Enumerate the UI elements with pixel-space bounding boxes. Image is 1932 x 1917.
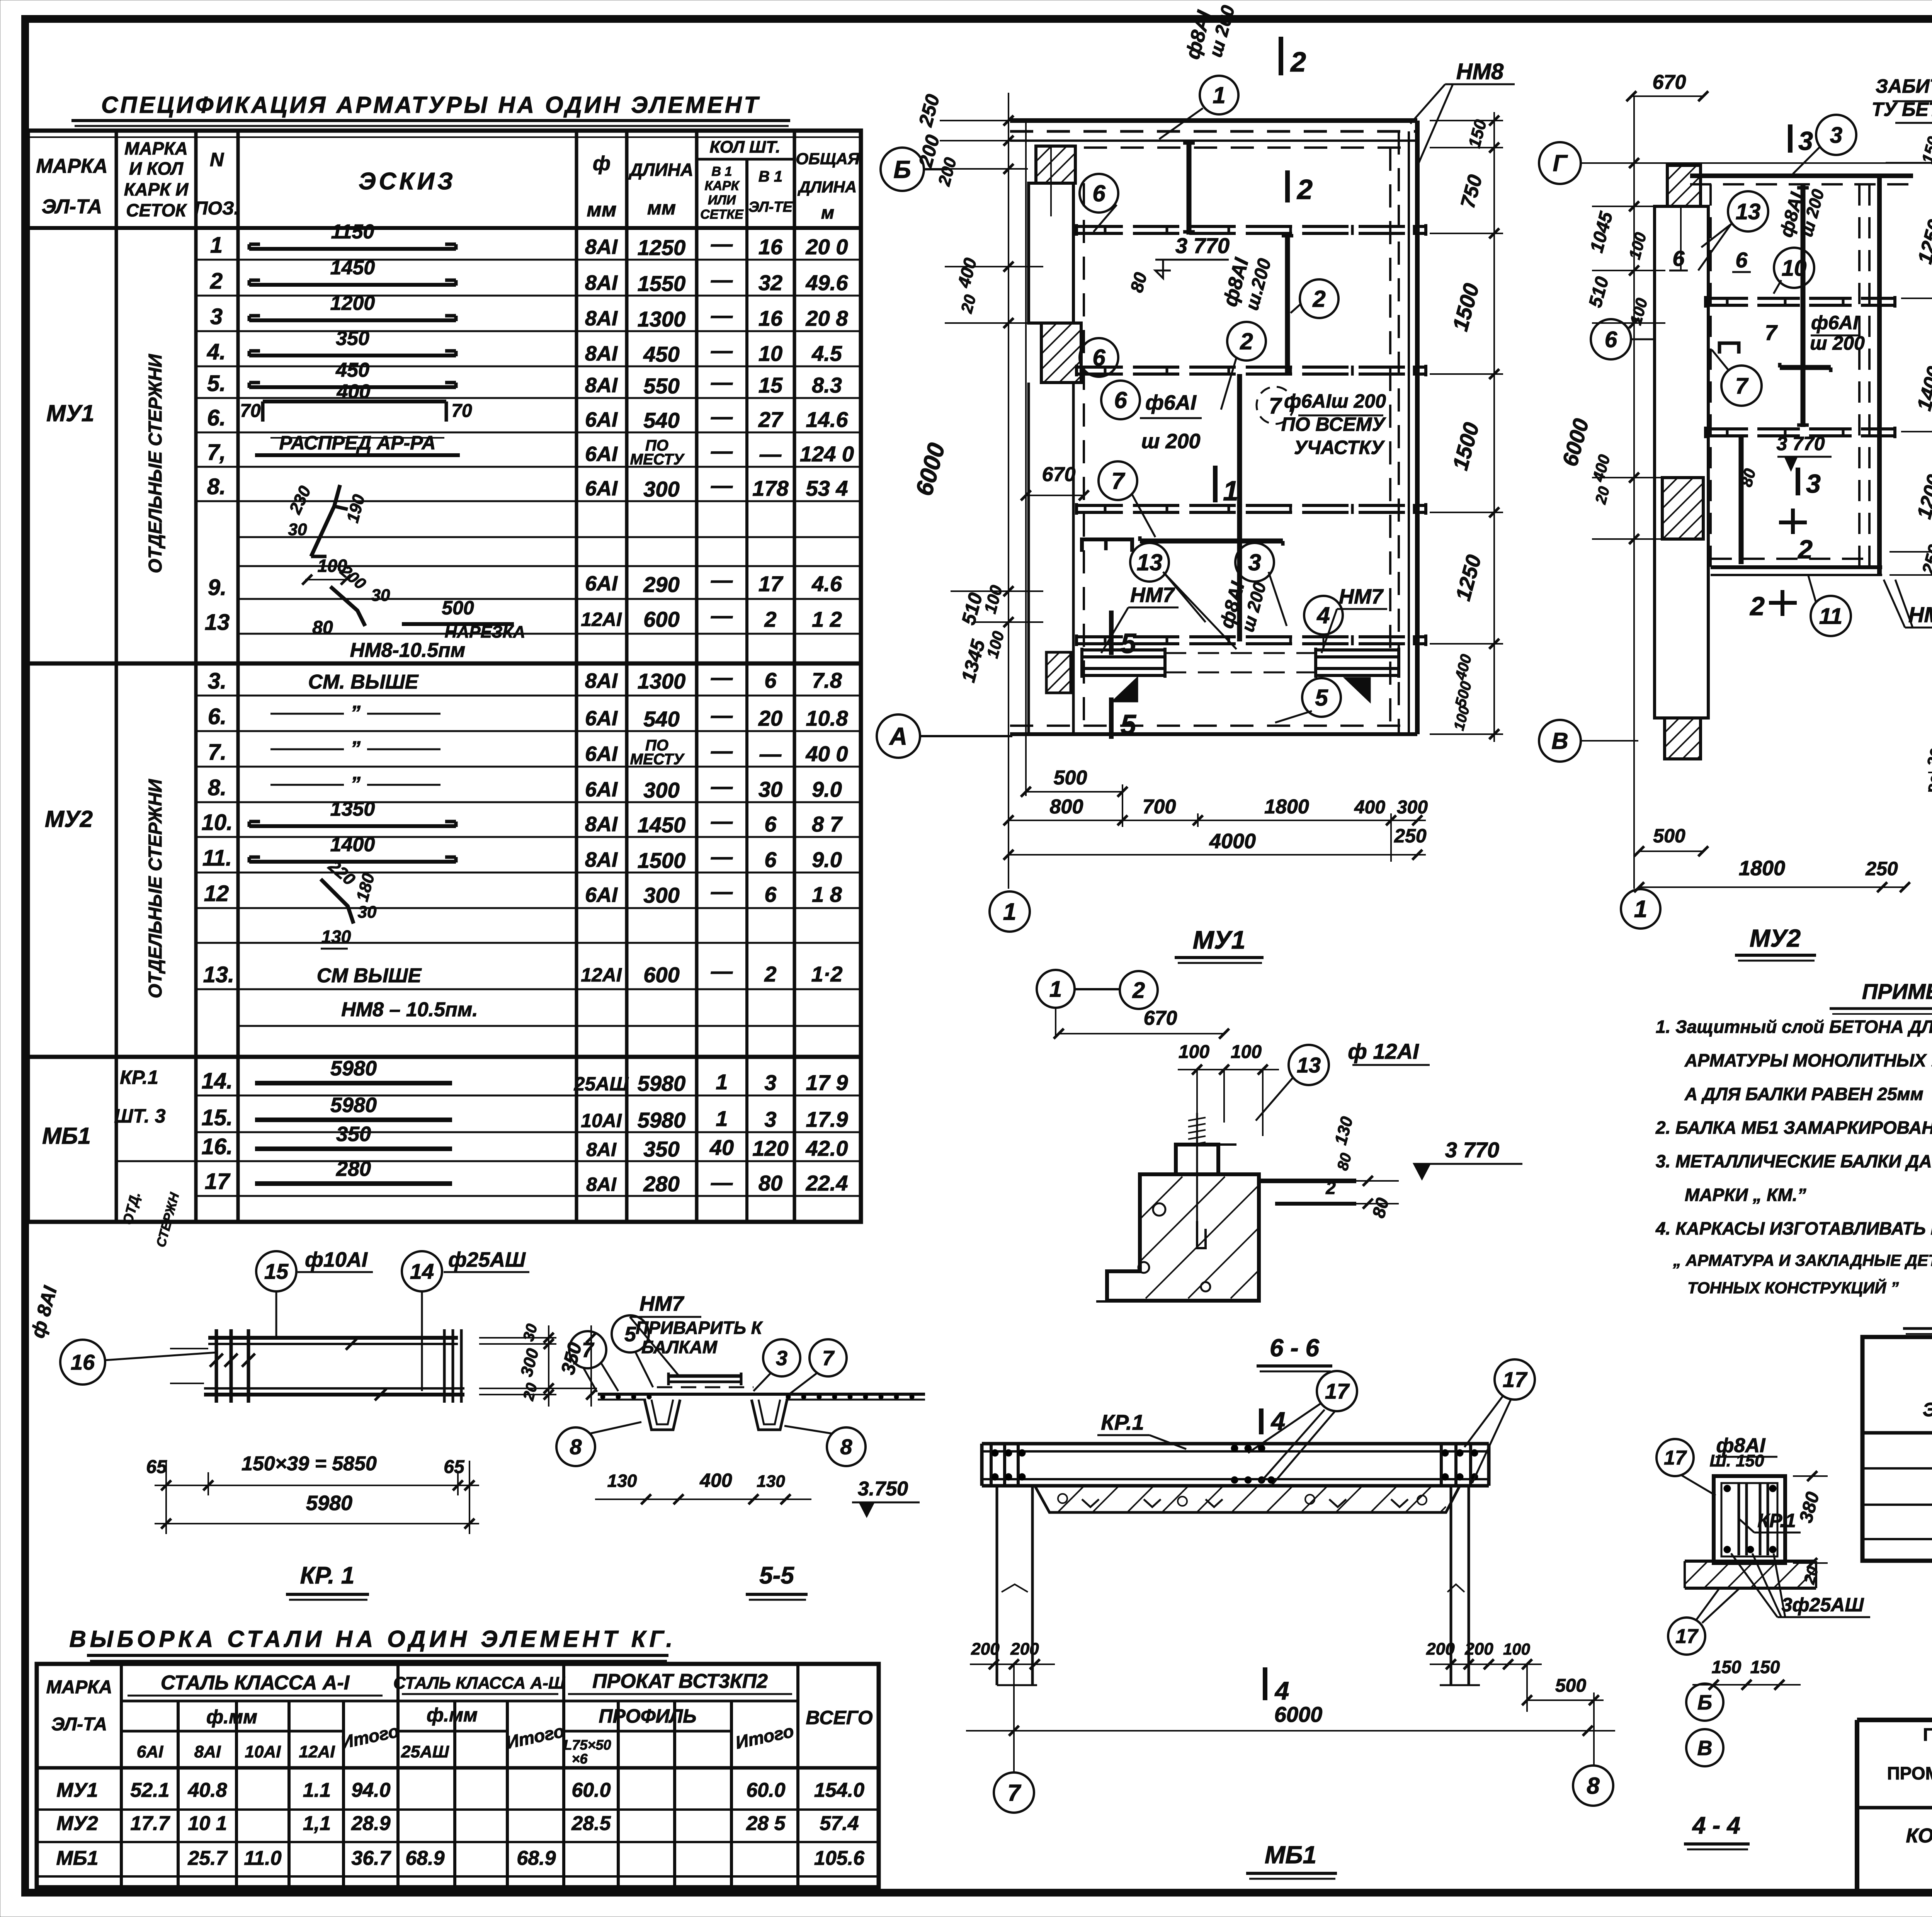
svg-text:20: 20 <box>758 706 782 730</box>
svg-text:„ АРМАТУРА И ЗАКЛАДНЫЕ ДЕТАЛИ: „ АРМАТУРА И ЗАКЛАДНЫЕ ДЕТАЛИ СВАРНЫЕ ДЛ… <box>1673 1251 1932 1269</box>
svg-text:600: 600 <box>643 963 679 987</box>
svg-text:ф10АI: ф10АI <box>305 1248 368 1271</box>
svg-text:3 770: 3 770 <box>1175 233 1230 258</box>
svg-text:32: 32 <box>759 270 782 295</box>
svg-text:68.9: 68.9 <box>517 1847 556 1869</box>
svg-text:7: 7 <box>1735 373 1749 398</box>
svg-text:450: 450 <box>335 359 369 381</box>
plan МУ2: ЗАБИТЬ ПО МЕСТУ callout <box>1872 75 1932 170</box>
svg-text:17 9: 17 9 <box>806 1070 848 1095</box>
svg-text:25АШ: 25АШ <box>574 1073 629 1095</box>
svg-text:7.: 7. <box>208 740 226 765</box>
plan МУ2: section cut marks <box>1749 124 1821 621</box>
svg-text:65: 65 <box>444 1457 465 1477</box>
svg-text:НМ8 – 10.5пм.: НМ8 – 10.5пм. <box>341 998 478 1021</box>
svg-text:3.750: 3.750 <box>858 1478 908 1500</box>
svg-text:КОЛ ШТ.: КОЛ ШТ. <box>709 138 780 156</box>
svg-text:ДЛИНА: ДЛИНА <box>628 160 693 180</box>
svg-text:17: 17 <box>205 1169 231 1194</box>
svg-text:7: 7 <box>582 1339 595 1362</box>
svg-text:НМ7: НМ7 <box>1130 583 1175 607</box>
svg-text:17: 17 <box>1503 1368 1528 1392</box>
svg-text:250: 250 <box>1394 825 1427 847</box>
МБ1 elevation: center rebar dots <box>1231 1445 1275 1483</box>
svg-text:—: — <box>711 844 733 869</box>
svg-text:1250: 1250 <box>638 235 686 260</box>
svg-text:350: 350 <box>336 327 369 350</box>
svg-text:10.: 10. <box>202 810 233 835</box>
svg-text:130: 130 <box>757 1472 785 1491</box>
svg-text:500: 500 <box>1555 1675 1586 1696</box>
label 4-4 <box>1684 1812 1750 1849</box>
svg-text:—: — <box>711 603 733 628</box>
svg-text:8АI: 8АI <box>585 307 618 330</box>
plan МУ1: beams <box>1077 224 1426 646</box>
svg-text:280: 280 <box>336 1157 371 1180</box>
svg-text:МУ2: МУ2 <box>45 806 93 832</box>
svg-text:6.: 6. <box>208 704 226 729</box>
svg-text:15.: 15. <box>202 1105 233 1130</box>
svg-text:мм: мм <box>587 199 617 221</box>
svg-text:ф6АI: ф6АI <box>1811 312 1859 333</box>
section 4-4: axis circles Б В <box>1686 1684 1747 1766</box>
svg-text:ПРОМСТРОЙНИИПРОЕКТ: ПРОМСТРОЙНИИПРОЕКТ <box>1887 1763 1932 1783</box>
выборка table texts <box>46 1670 873 1869</box>
svg-text:5980: 5980 <box>306 1492 352 1515</box>
svg-text:5980: 5980 <box>330 1094 377 1117</box>
svg-text:8АI: 8АI <box>585 271 618 294</box>
svg-text:16: 16 <box>759 235 783 259</box>
svg-text:1: 1 <box>1003 899 1016 925</box>
svg-text:3: 3 <box>1830 122 1842 148</box>
svg-text:7: 7 <box>1111 468 1125 494</box>
svg-text:ВЫБОРКА СТАЛИ НА ОДИН ЭЛЕМ: ВЫБОРКА СТАЛИ НА ОДИН ЭЛЕМЕНТ КГ. <box>70 1626 677 1652</box>
svg-text:3.: 3. <box>208 668 226 694</box>
КР.1 frame: right dims <box>479 1322 597 1407</box>
svg-text:11.: 11. <box>202 845 232 871</box>
svg-text:6АI: 6АI <box>585 707 618 730</box>
svg-text:6АI: 6АI <box>585 408 618 431</box>
svg-text:6: 6 <box>1114 387 1127 413</box>
svg-text:600: 600 <box>643 607 679 631</box>
svg-text:А: А <box>889 722 907 750</box>
svg-text:И КОЛ: И КОЛ <box>129 158 184 179</box>
svg-text:68.9: 68.9 <box>405 1847 444 1869</box>
МБ1 elevation: bottom axis circles 7 8 <box>994 1766 1613 1813</box>
svg-text:60.0: 60.0 <box>571 1779 611 1801</box>
МБ1 elevation: hatched web strip <box>1035 1486 1460 1512</box>
label МБ1 <box>1246 1841 1337 1879</box>
svg-text:5980: 5980 <box>638 1108 686 1132</box>
svg-text:28.5: 28.5 <box>571 1812 611 1835</box>
svg-text:3 770: 3 770 <box>1445 1138 1499 1162</box>
svg-text:7,: 7, <box>207 440 226 465</box>
svg-text:КОМПРЕССОРНАЯ: КОМПРЕССОРНАЯ <box>1906 1825 1932 1847</box>
svg-text:В: В <box>1697 1737 1713 1760</box>
svg-text:НМ8-10.5пм: НМ8-10.5пм <box>350 639 466 662</box>
detail 6-6: elevation 3.770 <box>1414 1138 1522 1179</box>
svg-text:7: 7 <box>822 1347 835 1370</box>
svg-text:—: — <box>711 959 733 983</box>
label КР.1 <box>286 1562 369 1600</box>
detail 6-6: header axis circles 1,2 <box>1037 970 1158 1036</box>
svg-text:”: ” <box>350 737 361 760</box>
svg-text:ДЛИНА: ДЛИНА <box>798 178 857 196</box>
plan МУ2: circled numbers <box>1591 115 1856 636</box>
svg-text:8АI: 8АI <box>586 1139 617 1160</box>
plan МУ1: axis line 1 <box>1009 93 1026 889</box>
svg-text:10: 10 <box>1782 255 1807 281</box>
svg-text:12АI: 12АI <box>299 1742 335 1761</box>
svg-text:НМ7: НМ7 <box>1339 585 1384 608</box>
svg-text:ПРОФИЛЬ: ПРОФИЛЬ <box>599 1705 697 1727</box>
svg-text:СТАЛЬ КЛАССА А-I: СТАЛЬ КЛАССА А-I <box>161 1672 350 1694</box>
svg-text:450: 450 <box>643 342 679 366</box>
svg-text:17.9: 17.9 <box>806 1107 848 1131</box>
svg-text:3 770: 3 770 <box>1776 433 1825 454</box>
svg-text:16: 16 <box>71 1350 95 1374</box>
svg-text:МУ1: МУ1 <box>56 1779 98 1801</box>
svg-text:1200: 1200 <box>330 292 375 315</box>
svg-text:—: — <box>711 665 733 689</box>
svg-text:МАРКА: МАРКА <box>46 1677 112 1698</box>
svg-text:ЭЛ-ТЕ: ЭЛ-ТЕ <box>748 199 793 215</box>
svg-text:20 0: 20 0 <box>806 235 848 259</box>
plan МУ1: axis circle 1 bottom <box>990 891 1030 932</box>
svg-text:670: 670 <box>1653 71 1686 94</box>
svg-text:СЕТКЕ: СЕТКЕ <box>700 207 744 222</box>
svg-text:м: м <box>821 202 834 223</box>
svg-text:8АI: 8АI <box>194 1742 221 1761</box>
svg-text:30: 30 <box>371 586 390 605</box>
svg-text:ф.мм: ф.мм <box>427 1704 478 1726</box>
svg-text:1800: 1800 <box>1264 796 1309 818</box>
svg-text:—: — <box>711 568 733 592</box>
spec table header texts <box>36 138 860 223</box>
svg-text:200: 200 <box>1464 1640 1493 1658</box>
svg-text:3: 3 <box>1798 126 1813 156</box>
section 4-4: callouts <box>1656 1434 1870 1690</box>
svg-text:ЭЛЕМЕНТА: ЭЛЕМЕНТА <box>1923 1399 1932 1420</box>
svg-text:КАРК: КАРК <box>704 179 740 193</box>
svg-text:—: — <box>711 738 733 763</box>
svg-text:120: 120 <box>752 1136 788 1160</box>
svg-text:УЧАСТКУ: УЧАСТКУ <box>1294 437 1385 458</box>
axis circle А (left area) <box>877 714 1012 758</box>
plan МУ1: bottom strip joists <box>1082 648 1399 701</box>
svg-text:36.7: 36.7 <box>351 1847 391 1869</box>
plan МУ1: right edge band <box>1390 121 1417 734</box>
svg-text:8: 8 <box>1587 1773 1600 1799</box>
svg-text:1500: 1500 <box>638 848 686 873</box>
svg-text:100: 100 <box>1179 1042 1209 1062</box>
svg-text:МЕСТУ: МЕСТУ <box>630 751 685 768</box>
svg-text:8АI: 8АI <box>585 342 618 365</box>
plan МУ2: axis circle 1 bottom <box>1621 889 1660 929</box>
svg-text:5: 5 <box>1315 685 1328 711</box>
svg-text:—: — <box>711 303 733 327</box>
svg-text:ПРОКАТ ВСТ3КП2: ПРОКАТ ВСТ3КП2 <box>592 1670 768 1692</box>
svg-text:—: — <box>711 1170 733 1194</box>
plan МУ1: slab outline top band <box>1010 121 1417 148</box>
svg-text:154.0: 154.0 <box>814 1779 864 1801</box>
svg-text:ТОННЫХ КОНСТРУКЦИЙ ”: ТОННЫХ КОНСТРУКЦИЙ ” <box>1687 1278 1899 1297</box>
svg-text:2. БАЛКА МБ1 ЗАМАРКИРОВАНА НА: 2. БАЛКА МБ1 ЗАМАРКИРОВАНА НА ЛИСТЕ КЖ-1… <box>1655 1118 1932 1138</box>
svg-text:ПО ВСЕМУ: ПО ВСЕМУ <box>1281 413 1387 435</box>
svg-text:КР.1: КР.1 <box>1101 1410 1144 1434</box>
svg-text:МЕСТУ: МЕСТУ <box>630 451 685 468</box>
svg-text:3: 3 <box>1248 549 1261 575</box>
КР.1 frame: bottom dims <box>146 1453 479 1534</box>
plan МУ2: bold rebar <box>1719 185 1831 564</box>
svg-text:1 8: 1 8 <box>812 882 842 907</box>
svg-text:3: 3 <box>764 1107 776 1131</box>
svg-text:3: 3 <box>764 1070 776 1095</box>
расход table grid <box>1862 1337 1932 1561</box>
svg-text:13.: 13. <box>203 962 235 987</box>
svg-text:5-5: 5-5 <box>759 1562 794 1589</box>
svg-text:СЕТОК: СЕТОК <box>126 200 187 220</box>
svg-text:8: 8 <box>570 1435 582 1459</box>
svg-text:500: 500 <box>1054 767 1087 789</box>
svg-text:130: 130 <box>321 927 351 947</box>
svg-text:700: 700 <box>1143 796 1176 818</box>
svg-text:10.8: 10.8 <box>806 706 849 730</box>
svg-text:8.3: 8.3 <box>812 373 842 397</box>
svg-text:РАСПРЕД АР-РА: РАСПРЕД АР-РА <box>279 432 435 454</box>
svg-text:8: 8 <box>840 1435 852 1459</box>
plan МУ2: axis circle Г <box>1539 142 1932 184</box>
МБ1 elevation: 17 circles <box>1248 1359 1535 1486</box>
svg-text:4: 4 <box>1270 1407 1286 1435</box>
svg-text:8АI: 8АI <box>585 813 618 836</box>
svg-text:1: 1 <box>1634 896 1647 923</box>
plan МУ2: left wall and hatched columns <box>1655 165 1708 759</box>
svg-text:СПЕЦИФИКАЦИЯ АРМАТУРЫ НА ОД: СПЕЦИФИКАЦИЯ АРМАТУРЫ НА ОДИН ЭЛЕМЕНТ <box>101 92 760 118</box>
svg-text:1300: 1300 <box>638 669 686 693</box>
svg-text:1: 1 <box>716 1106 728 1131</box>
svg-text:МБ1: МБ1 <box>42 1123 91 1149</box>
svg-text:550: 550 <box>643 374 679 398</box>
svg-text:6: 6 <box>1735 248 1748 272</box>
svg-text:Ш. 150: Ш. 150 <box>1710 1451 1764 1470</box>
svg-text:ЭСКИЗ: ЭСКИЗ <box>359 168 456 195</box>
svg-text:6АI: 6АI <box>585 778 618 801</box>
svg-text:6 - 6: 6 - 6 <box>1270 1334 1319 1362</box>
svg-text:ИЛИ: ИЛИ <box>708 193 736 208</box>
label МУ2 <box>1735 924 1816 961</box>
svg-text:1·2: 1·2 <box>811 962 843 986</box>
МБ1 elevation: support posts <box>997 1486 1480 1685</box>
svg-text:1400: 1400 <box>330 833 375 856</box>
svg-text:25.7: 25.7 <box>187 1847 228 1869</box>
svg-text:ш 200: ш 200 <box>1141 430 1200 453</box>
svg-text:8АI: 8АI <box>585 374 618 397</box>
svg-text:мм: мм <box>647 197 676 219</box>
svg-text:28.9: 28.9 <box>351 1812 390 1835</box>
svg-text:6000: 6000 <box>1274 1702 1323 1726</box>
svg-text:5980: 5980 <box>638 1071 686 1095</box>
svg-text:200: 200 <box>1010 1640 1039 1658</box>
svg-text:5: 5 <box>624 1323 636 1346</box>
svg-text:1: 1 <box>1223 476 1238 507</box>
svg-text:3: 3 <box>1806 469 1821 498</box>
plan МУ1: bottom edge <box>1010 726 1417 734</box>
svg-text:МУ2: МУ2 <box>56 1812 98 1835</box>
svg-text:В: В <box>1551 728 1568 754</box>
plan МУ2: slab outline <box>1690 176 1913 575</box>
plan МУ1: bottom dimensions <box>1003 767 1428 862</box>
svg-text:400: 400 <box>1354 797 1385 818</box>
svg-text:14: 14 <box>410 1259 434 1284</box>
svg-text:14.6: 14.6 <box>806 407 849 432</box>
svg-text:250: 250 <box>1865 858 1898 879</box>
svg-text:Б: Б <box>1697 1691 1712 1714</box>
svg-text:ПОЗ.: ПОЗ. <box>194 198 239 219</box>
detail 3-3: dims <box>1923 747 1932 953</box>
svg-text:49.6: 49.6 <box>806 270 849 295</box>
svg-text:2: 2 <box>1132 978 1145 1003</box>
section 4-4: beam cross-section <box>1714 1476 1785 1563</box>
svg-text:80: 80 <box>759 1171 782 1195</box>
svg-text:1300: 1300 <box>638 307 686 331</box>
svg-text:”: ” <box>350 702 361 724</box>
svg-text:ф6АI: ф6АI <box>1145 391 1197 414</box>
svg-text:70: 70 <box>240 401 261 421</box>
svg-text:3: 3 <box>210 304 223 329</box>
axis circle Б (left area) <box>881 148 947 191</box>
svg-text:17: 17 <box>759 572 784 596</box>
svg-text:30: 30 <box>288 520 307 539</box>
svg-text:8АI: 8АI <box>585 235 618 259</box>
svg-text:—: — <box>711 879 733 903</box>
svg-text:15: 15 <box>264 1259 289 1284</box>
svg-text:1: 1 <box>1213 82 1225 108</box>
svg-text:6АI: 6АI <box>137 1742 163 1761</box>
svg-text:1: 1 <box>716 1070 728 1094</box>
svg-text:8АI: 8АI <box>585 848 618 871</box>
svg-text:КАРК И: КАРК И <box>124 179 189 199</box>
svg-text:30: 30 <box>358 903 377 922</box>
title: СПЕЦИФИКАЦИЯ АРМАТУРЫ НА ОДИН ЭЛЕМЕНТ <box>71 92 790 126</box>
svg-text:5: 5 <box>1121 709 1136 740</box>
svg-text:105.6: 105.6 <box>814 1847 865 1869</box>
svg-text:670: 670 <box>1042 463 1076 486</box>
svg-text:290: 290 <box>643 572 679 597</box>
КР.1 frame: bars <box>170 1329 464 1403</box>
svg-text:17: 17 <box>1325 1379 1350 1403</box>
svg-text:200: 200 <box>1426 1640 1455 1658</box>
svg-text:6АI: 6АI <box>585 442 618 466</box>
svg-text:1: 1 <box>210 233 223 258</box>
КР.1 frame: callout circles 15 14 <box>256 1248 529 1391</box>
svg-text:6: 6 <box>1605 327 1617 352</box>
МБ1 elevation: КР.1 callout <box>1097 1410 1186 1449</box>
svg-text:СМ. ВЫШЕ: СМ. ВЫШЕ <box>308 671 419 693</box>
plan МУ1: left dimension column <box>911 92 1089 685</box>
spec table grid <box>28 131 861 1222</box>
svg-text:1150: 1150 <box>331 221 374 243</box>
svg-text:1 2: 1 2 <box>812 607 842 631</box>
svg-text:540: 540 <box>643 707 679 731</box>
МБ1 elevation: top slab band <box>982 1444 1489 1486</box>
svg-text:11.0: 11.0 <box>244 1847 281 1869</box>
svg-text:280: 280 <box>643 1172 679 1196</box>
svg-text:—: — <box>711 267 733 292</box>
svg-text:—: — <box>711 338 733 362</box>
svg-text:150: 150 <box>1712 1657 1742 1677</box>
svg-text:7: 7 <box>1007 1780 1021 1806</box>
section 4-4: slab strip below <box>1685 1561 1816 1588</box>
svg-text:10АI: 10АI <box>581 1110 622 1131</box>
svg-text:9.0: 9.0 <box>812 847 842 872</box>
title block frame <box>1857 1720 1932 1893</box>
svg-text:25АШ: 25АШ <box>401 1742 449 1761</box>
svg-text:ф25АШ: ф25АШ <box>448 1248 526 1271</box>
svg-text:6: 6 <box>764 668 777 692</box>
svg-text:А ДЛЯ БАЛКИ РАВЕН 25мм: А ДЛЯ БАЛКИ РАВЕН 25мм <box>1684 1084 1923 1104</box>
plan МУ2: top dim 670 <box>1626 71 1708 101</box>
svg-text:В 1: В 1 <box>759 168 782 185</box>
svg-text:20 8: 20 8 <box>806 306 849 330</box>
detail 6-6: concrete pier with anchor <box>1096 1113 1260 1301</box>
svg-text:—: — <box>711 473 733 497</box>
detail 6-6: right slab <box>1218 1114 1399 1220</box>
svg-text:4 - 4: 4 - 4 <box>1692 1812 1740 1839</box>
svg-text:13: 13 <box>1297 1053 1321 1077</box>
svg-text:МАРКИ „ КМ.”: МАРКИ „ КМ.” <box>1685 1185 1806 1205</box>
svg-text:Г: Г <box>1553 150 1568 176</box>
svg-text:3ф25АШ: 3ф25АШ <box>1782 1594 1864 1616</box>
svg-text:3. МЕТАЛЛИЧЕСКИЕ БАЛКИ ДАНЫ НА: 3. МЕТАЛЛИЧЕСКИЕ БАЛКИ ДАНЫ НА ЧЕРТЕЖАХ <box>1656 1151 1932 1171</box>
svg-text:178: 178 <box>752 476 789 500</box>
svg-text:СМ ВЫШЕ: СМ ВЫШЕ <box>317 964 422 987</box>
plan МУ2: axis circle В <box>1539 720 1638 762</box>
svg-text:8АI: 8АI <box>586 1174 617 1195</box>
svg-text:130: 130 <box>607 1471 637 1491</box>
svg-text:8АI: 8АI <box>585 669 618 692</box>
svg-text:13: 13 <box>1736 199 1761 224</box>
svg-text:17.7: 17.7 <box>130 1812 170 1835</box>
svg-text:300: 300 <box>643 477 679 501</box>
plan МУ1: rebar labels <box>1101 3 1515 653</box>
svg-text:27: 27 <box>758 407 784 432</box>
svg-text:5.: 5. <box>207 371 226 396</box>
svg-text:7.8: 7.8 <box>812 668 842 692</box>
svg-text:6: 6 <box>1092 180 1105 206</box>
svg-text:СТАЛЬ КЛАССА А-Ш: СТАЛЬ КЛАССА А-Ш <box>393 1674 565 1692</box>
svg-text:МАРКА: МАРКА <box>36 155 107 177</box>
svg-text:9.0: 9.0 <box>812 777 842 801</box>
МБ1 elevation: cut marks 4-4 <box>1261 1407 1289 1705</box>
svg-text:КР. 1: КР. 1 <box>300 1562 355 1589</box>
plan МУ2: right dims <box>1886 116 1932 587</box>
svg-text:100: 100 <box>1231 1042 1262 1062</box>
svg-text:—: — <box>759 742 782 766</box>
svg-text:30: 30 <box>759 777 782 801</box>
section 5-5: drawing <box>598 1373 925 1430</box>
svg-text:40: 40 <box>709 1135 734 1160</box>
svg-text:28 5: 28 5 <box>746 1812 786 1835</box>
svg-text:2: 2 <box>764 607 776 631</box>
svg-text:ф.мм: ф.мм <box>206 1706 257 1728</box>
svg-text:13: 13 <box>205 610 230 635</box>
svg-text:7: 7 <box>1765 320 1778 345</box>
svg-text:—: — <box>711 774 733 798</box>
svg-text:6: 6 <box>764 882 777 907</box>
spec rows МУ2 <box>202 665 849 1021</box>
svg-text:6АI: 6АI <box>585 742 618 765</box>
